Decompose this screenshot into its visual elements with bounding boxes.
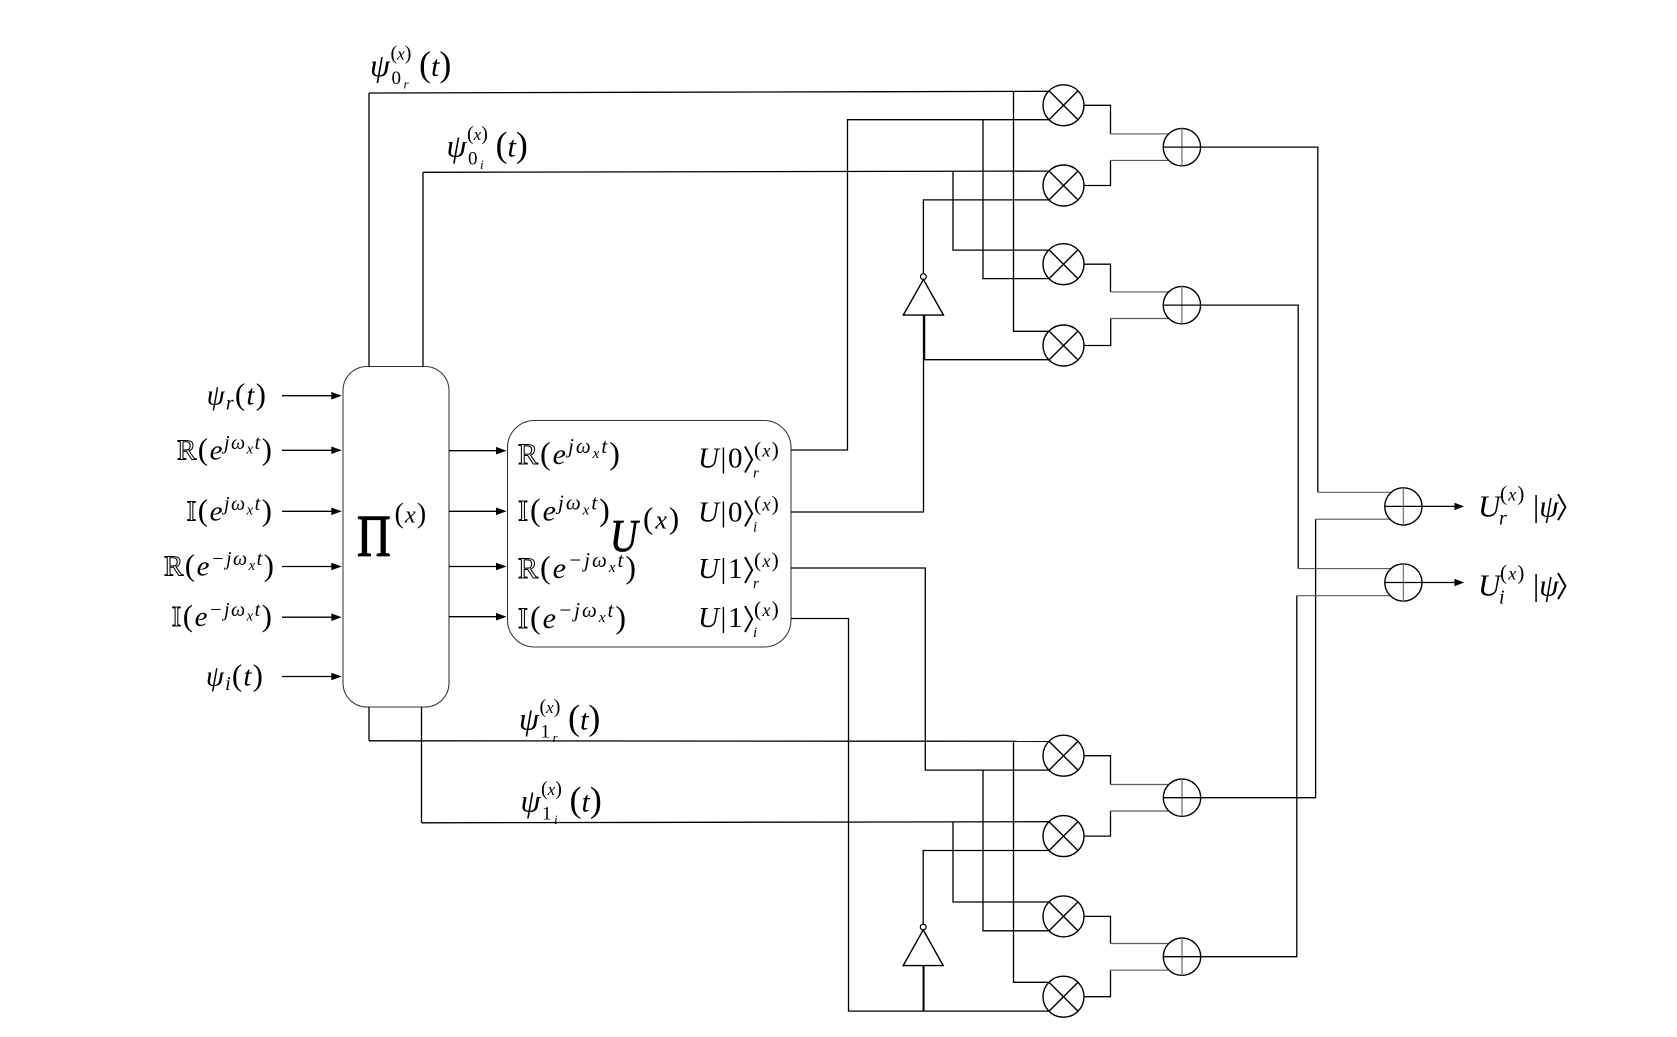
wire U|1>_i branch up to inverter N2 input <box>922 966 924 1011</box>
svg-text:(x): (x) <box>754 492 779 516</box>
wire final adder I output arrow <box>1422 579 1464 586</box>
svg-text:r: r <box>1499 508 1507 530</box>
svg-text:(x): (x) <box>754 597 779 621</box>
wire final adder R output arrow <box>1422 503 1464 510</box>
svg-text:r: r <box>753 576 759 592</box>
adder AI (U_i output) <box>1385 564 1422 601</box>
svg-text:(x): (x) <box>395 499 427 530</box>
wire M2 output riser <box>1084 160 1111 185</box>
wire U|1>_i to M8 lower input <box>791 619 1049 1012</box>
svg-text:U|1: U|1 <box>698 602 742 634</box>
svg-text:ψ: ψ <box>370 47 391 83</box>
multiplier M1 (psi0r x U0r) <box>1043 85 1084 126</box>
label U-in I(e^{-j omega_x t}) <box>518 598 626 635</box>
wire input psi_i(t) arrow into PI <box>282 673 342 681</box>
label U-in R(e^{j omega_x t}) <box>518 434 620 471</box>
wire input I(e^{-j w x t}) arrow into PI <box>282 613 342 621</box>
adder A1 (real top) <box>1163 128 1200 165</box>
wire psi0i horizontal to M2 upper input <box>423 171 1049 172</box>
multiplier M3 (psi0i x U0r) <box>1043 244 1084 285</box>
svg-text:i: i <box>753 520 757 536</box>
wire U|0>_i up to inverter N1 input <box>791 316 924 513</box>
wire A4 output riser up <box>1201 596 1297 957</box>
multiplier M2 (psi0i x -U0i) <box>1043 165 1084 206</box>
label psi_{0i}^{(x)}(t) <box>447 123 528 172</box>
wire psi1i stub from PI bottom <box>421 707 423 823</box>
wire A1 approach into final adder R upper port <box>1318 491 1391 493</box>
wire M6 approach into adder port <box>1111 810 1169 812</box>
wire PI to U R(e^{-jwt}) <box>449 563 507 571</box>
svg-text:i: i <box>753 625 757 641</box>
wire overlay inverter N1 input doubled segment <box>924 316 926 360</box>
label U|0>_i^(x) output port <box>698 492 779 536</box>
wire PI to U R(e^{jwt}) <box>449 447 507 455</box>
multiplier M5 (psi1r x U1r) <box>1043 735 1084 776</box>
wire M7 approach into adder port <box>1111 943 1169 945</box>
label U_r^(x)|psi> output <box>1478 482 1566 530</box>
wire M8 approach into adder port <box>1111 969 1169 971</box>
wire psi0i stub from PI top <box>422 172 424 366</box>
svg-text:(x): (x) <box>754 438 779 462</box>
wire inverter N1 output to M2 lower input <box>923 200 1049 274</box>
svg-text:U|0: U|0 <box>698 497 742 529</box>
svg-text:0: 0 <box>468 149 478 170</box>
wire A4 approach into final adder I lower port <box>1297 595 1391 597</box>
label U|1>_i^(x) output port <box>698 597 779 641</box>
label PI^(x) <box>357 499 426 570</box>
svg-text:0: 0 <box>392 68 402 89</box>
block U^(x) (unitary block) <box>508 421 792 648</box>
wire psi1i horizontal to M6 upper input <box>422 822 1049 823</box>
wire M3 approach into adder port <box>1111 291 1169 293</box>
wire M5 approach into adder port <box>1111 784 1169 786</box>
svg-text:(x): (x) <box>1500 482 1524 506</box>
wire A2 approach into final adder I upper port <box>1298 568 1390 570</box>
svg-text:(t): (t) <box>570 780 602 820</box>
wire psi1r stub from PI bottom <box>368 707 370 741</box>
svg-text:ψi(t): ψi(t) <box>206 658 263 696</box>
label psi_{0r}^{(x)}(t) <box>370 43 451 92</box>
label psi_{1r}^{(x)}(t) <box>519 696 600 745</box>
svg-text:(t): (t) <box>419 44 451 84</box>
wire psi1i branch down to M7 upper input <box>953 822 1049 902</box>
wire A2 output riser down <box>1201 305 1299 568</box>
svg-text:(x): (x) <box>540 696 561 718</box>
wire A3 approach into final adder R lower port <box>1316 518 1391 520</box>
multiplier M7 (psi1i x U1r) <box>1043 896 1084 937</box>
label R(e^{-j omega_x t}) input <box>164 548 274 583</box>
svg-text:ψr(t): ψr(t) <box>207 377 266 415</box>
wire input R(e^{j w x t}) arrow into PI <box>282 447 342 455</box>
wire M6 output riser <box>1084 811 1111 836</box>
wire psi1r horizontal to M5 upper input <box>369 740 1049 743</box>
svg-text:r: r <box>753 466 759 482</box>
svg-text:(x): (x) <box>467 123 488 145</box>
wire M5 output riser <box>1084 756 1111 785</box>
wire psi1r branch down to M8 upper input <box>1014 741 1049 982</box>
svg-text:i: i <box>1499 587 1505 609</box>
wire U|0>_r branch to M3 lower input <box>983 120 1049 279</box>
label U|0>_r^(x) output port <box>698 438 779 482</box>
svg-text:(x): (x) <box>643 501 679 536</box>
adder A4 (imag bottom) <box>1163 938 1200 975</box>
svg-text:1: 1 <box>541 722 551 743</box>
svg-text:ψ: ψ <box>521 783 542 819</box>
inverter N2 (negate U1i) (NOT, pointing up) <box>903 924 943 966</box>
svg-text:U|0: U|0 <box>698 443 742 475</box>
adder AR (U_r output) <box>1385 488 1422 525</box>
wire input R(e^{-j w x t}) arrow into PI <box>282 563 342 571</box>
svg-text:(t): (t) <box>496 125 528 165</box>
label I(e^{-j omega_x t}) input <box>172 598 272 633</box>
svg-text:ψ: ψ <box>519 701 540 737</box>
multiplier M8 (psi1r x U1i) <box>1043 976 1084 1017</box>
wire A3 output riser up <box>1201 519 1316 798</box>
label U_i^(x)|psi> output <box>1478 561 1566 609</box>
wire M8 output riser <box>1084 970 1111 997</box>
wire overlay inverter N2 input doubled segment <box>923 966 925 1011</box>
svg-text:|ψ: |ψ <box>1533 489 1559 524</box>
label I(e^{j omega_x t}) input <box>187 492 272 527</box>
svg-text:(x): (x) <box>1500 561 1524 585</box>
wire M2 approach into adder port <box>1111 159 1169 161</box>
wire M1 output riser <box>1084 105 1111 134</box>
label U-in I(e^{j omega_x t}) <box>518 491 610 528</box>
svg-text:ψ: ψ <box>447 128 468 164</box>
wire PI to U I(e^{-jwt}) <box>449 613 507 621</box>
wire M4 approach into adder port <box>1111 318 1169 320</box>
svg-text:(x): (x) <box>541 778 562 800</box>
wire inverter N2 output to M6 lower input <box>923 851 1048 924</box>
wire U|0>_r to M1 lower input <box>791 120 1049 450</box>
label R(e^{j omega_x t}) input <box>177 431 272 466</box>
wire M7 output riser <box>1084 916 1111 943</box>
svg-text:i: i <box>480 157 484 172</box>
wire M1 approach into adder port <box>1111 133 1169 135</box>
svg-text:(x): (x) <box>754 548 779 572</box>
wire psi0r branch down to M4 upper input <box>1014 92 1050 332</box>
svg-text:Π: Π <box>357 505 391 569</box>
adder A3 (real bottom) <box>1163 779 1200 816</box>
multiplier M4 (psi0r x U0i) <box>1043 325 1084 366</box>
svg-text:1: 1 <box>542 804 552 825</box>
label U|1>_r^(x) output port <box>698 548 779 592</box>
adder A2 (imag top) <box>1163 286 1200 323</box>
multiplier M6 (psi1i x -U1i) <box>1043 816 1084 857</box>
wire M3 output riser <box>1084 264 1111 292</box>
inverter N1 (negate U0i) (NOT, pointing up) <box>903 274 943 315</box>
svg-text:U|1: U|1 <box>698 553 742 585</box>
wire input psi_r(t) arrow into PI <box>282 392 342 400</box>
wire psi0i branch down to M3 upper input <box>953 172 1049 250</box>
wire M4 output riser <box>1084 319 1111 346</box>
svg-text:|ψ: |ψ <box>1533 568 1559 603</box>
block PI^(x) (projection block) <box>343 367 449 708</box>
label psi_r(t) input <box>207 377 266 415</box>
label U-in R(e^{-j omega_x t}) <box>518 548 636 585</box>
wire U|0>_i branch to M4 lower input <box>924 359 1050 361</box>
svg-text:(x): (x) <box>391 43 412 65</box>
label psi_{1i}^{(x)}(t) <box>521 778 602 827</box>
label psi_i(t) input <box>206 658 263 696</box>
wire psi0r horizontal to M1 upper input <box>369 91 1049 93</box>
wire PI to U I(e^{jwt}) <box>449 508 507 516</box>
wire psi0r stub from PI top <box>368 93 370 367</box>
wire A1 output riser down <box>1201 147 1318 492</box>
svg-text:i: i <box>554 812 558 827</box>
wire U|1>_r to M5 lower input <box>791 568 1049 770</box>
wire U|1>_r branch to M7 lower input <box>983 770 1049 931</box>
svg-text:(t): (t) <box>568 698 600 738</box>
wire input I(e^{j w x t}) arrow into PI <box>282 508 342 516</box>
label U^(x) <box>610 501 679 562</box>
